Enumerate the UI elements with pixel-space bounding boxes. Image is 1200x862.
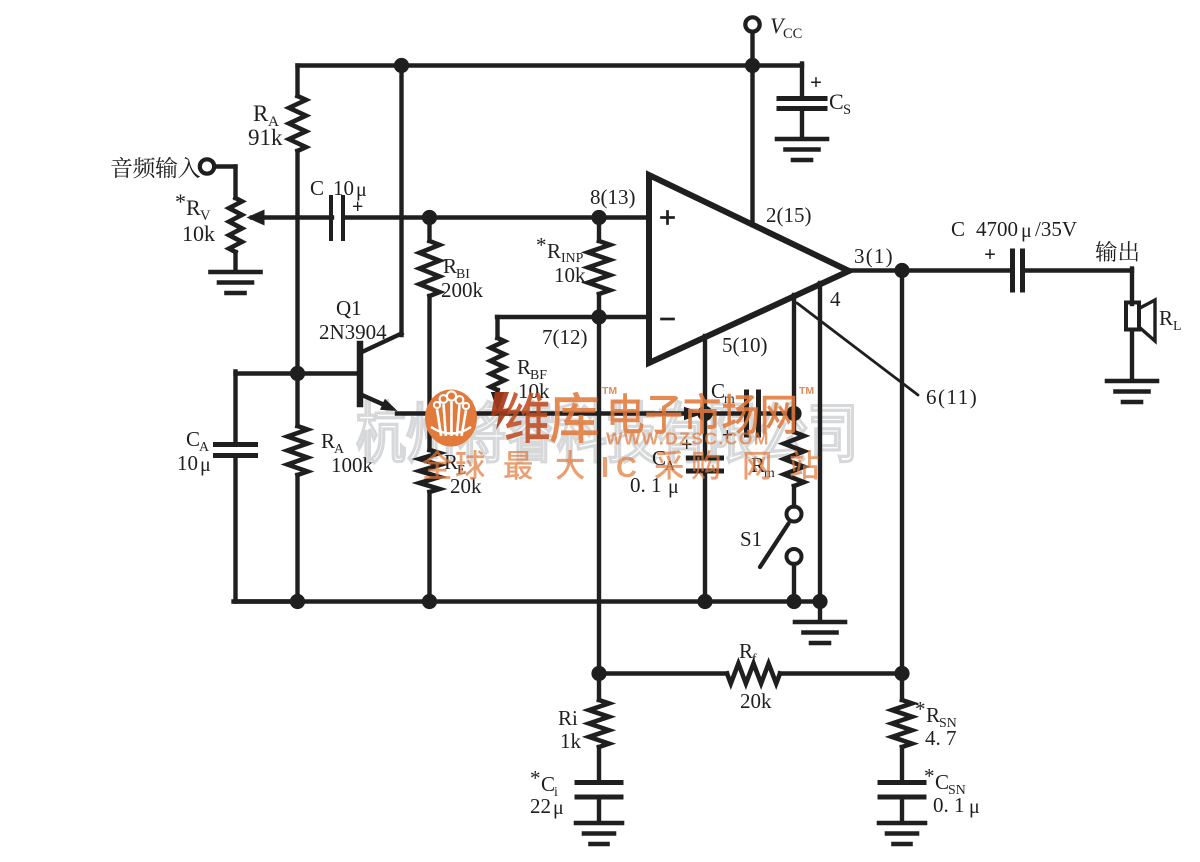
watermark dzsc logo circle and bolt — [425, 390, 510, 447]
svg-text:10k: 10k — [554, 263, 586, 287]
svg-text:L: L — [1173, 318, 1181, 333]
label 200k — [441, 278, 484, 302]
svg-text:μ: μ — [200, 454, 211, 476]
svg-text:S1: S1 — [740, 527, 762, 551]
svg-text:R: R — [253, 101, 269, 126]
label 7(12) — [542, 325, 588, 349]
svg-text:TM: TM — [602, 385, 617, 397]
input terminal circle — [200, 159, 214, 173]
capacitor CA 0.1u — [689, 458, 722, 471]
resistor Ri 1k body — [589, 700, 609, 747]
label + of output cap — [984, 242, 996, 266]
ground below CS — [777, 139, 827, 160]
label 100k — [331, 453, 374, 477]
wire C to opamp plus input — [344, 215, 650, 219]
svg-text:22: 22 — [530, 794, 551, 818]
node bus RA100k — [290, 594, 305, 609]
svg-text:R: R — [926, 703, 940, 727]
capacitor CS — [779, 99, 825, 109]
leader line 6(11) — [797, 303, 918, 395]
label 20k RE — [450, 474, 482, 498]
potentiometer RV body — [229, 198, 242, 252]
ground below CSN — [879, 823, 925, 844]
svg-text:Q1: Q1 — [336, 296, 362, 320]
svg-text:f: f — [752, 651, 757, 666]
capacitor C 4700u — [1013, 251, 1023, 290]
label S1 — [740, 527, 762, 551]
wire opamp output — [849, 268, 1011, 272]
resistor RINP 10k body — [588, 241, 610, 294]
svg-text:C: C — [310, 176, 324, 200]
transistor Q1 emitter lead with arrow — [362, 395, 398, 411]
switch S1 lever — [760, 524, 789, 568]
transistor Q1 collector lead — [362, 334, 402, 353]
resistor RA 100k body — [288, 374, 308, 602]
label CS — [829, 89, 851, 118]
label Cm — [711, 379, 735, 406]
svg-text:A: A — [199, 439, 209, 454]
op-amp plus input sign — [662, 212, 674, 224]
wire pin 6(11) branch — [792, 295, 796, 432]
switch S1 top contact — [787, 507, 802, 522]
label RA — [253, 101, 279, 130]
svg-text:μ: μ — [553, 797, 564, 819]
node junction of Q1 collector and supply bus — [394, 58, 409, 73]
pot wiper arrow — [247, 210, 333, 226]
svg-text:C: C — [541, 772, 555, 796]
svg-text:WWW.DZSC.COM: WWW.DZSC.COM — [606, 429, 770, 449]
node bus RE20k — [422, 594, 437, 609]
resistor RSN body — [892, 674, 912, 782]
wire RINP top stub — [597, 218, 601, 318]
label RBF — [517, 355, 547, 382]
wire Ci to ground — [597, 799, 601, 822]
svg-text:R: R — [443, 254, 457, 278]
svg-text:R: R — [547, 239, 561, 263]
svg-text:+: + — [984, 242, 996, 266]
svg-text:20k: 20k — [740, 689, 772, 713]
capacitor CA 10u — [216, 445, 256, 456]
op-amp minus input sign — [662, 318, 674, 321]
label 8(13) — [590, 185, 636, 209]
svg-text:8(13): 8(13) — [590, 185, 636, 209]
label *Ci — [530, 766, 558, 799]
node Rf left — [591, 666, 606, 681]
node junction of Vcc and supply bus — [745, 58, 760, 73]
wire output cap to load — [1023, 269, 1133, 305]
node base node RA junction — [290, 366, 305, 381]
node S1 at bottom bus — [786, 594, 801, 609]
label CA 0.1u — [652, 446, 675, 473]
svg-text:+: + — [810, 70, 822, 94]
svg-text:μ: μ — [1021, 220, 1032, 242]
resistor RBI 200k body — [420, 218, 440, 451]
switch S1 bottom contact — [787, 549, 802, 564]
label 6(11) — [926, 385, 978, 409]
watermark orange dzsc text — [423, 385, 819, 484]
capacitor CSN — [880, 783, 924, 798]
svg-text:CC: CC — [783, 26, 802, 42]
label CA left — [186, 427, 209, 454]
label *RV — [175, 189, 211, 224]
label Q1 — [336, 296, 362, 320]
wire base of Q1 — [236, 371, 358, 375]
label 4 — [830, 287, 841, 311]
svg-text:C: C — [951, 217, 965, 241]
label *CSN — [924, 764, 966, 797]
RBF bottom arrow onto emitter bus — [491, 392, 504, 412]
ground below Ci — [576, 823, 622, 844]
label + of CA 0.1u — [681, 434, 692, 456]
capacitor Ci 22u — [577, 783, 621, 798]
svg-text:6(11): 6(11) — [926, 385, 978, 409]
label RE — [444, 450, 465, 477]
svg-text:S: S — [843, 102, 851, 118]
wire CS branch from bus — [800, 64, 804, 98]
svg-text:1k: 1k — [560, 729, 582, 753]
svg-text:R: R — [517, 355, 531, 379]
label 22u — [530, 794, 564, 819]
capacitor C 10u — [331, 197, 343, 239]
wire Q1 emitter bus — [397, 407, 704, 420]
label 10k RINP — [554, 263, 586, 287]
op-amp U1 triangle — [649, 175, 849, 363]
label 2N3904 — [319, 320, 387, 344]
Vcc terminal — [745, 17, 759, 65]
watermark grey company name — [358, 401, 853, 463]
svg-text:0. 1: 0. 1 — [933, 793, 965, 817]
wire Cm to pin 6(11) branch — [759, 411, 795, 415]
label *RSN — [915, 697, 957, 730]
wire emitter bus to Cm — [705, 411, 744, 415]
wire CSN to ground — [900, 799, 904, 822]
node bus CA 0.1u — [697, 594, 712, 609]
node emitter wire at pin 5(10) branch — [697, 406, 712, 421]
svg-text:10: 10 — [177, 451, 198, 475]
label 20k Rf — [740, 689, 772, 713]
svg-text:R: R — [1159, 306, 1173, 330]
svg-text:100k: 100k — [331, 453, 374, 477]
svg-text:R: R — [186, 195, 201, 220]
node output 3(1) — [894, 263, 909, 278]
node pin 6(11) branch at Cm — [786, 406, 801, 421]
label RA 100k — [321, 429, 344, 456]
label 2(15) — [766, 203, 812, 227]
svg-text:C: C — [935, 770, 949, 794]
resistor RE 20k body — [420, 450, 440, 602]
wire bottom bus — [236, 599, 821, 603]
label 3(1) — [854, 244, 894, 268]
svg-text:2N3904: 2N3904 — [319, 320, 387, 344]
label RBI — [443, 254, 470, 281]
svg-text:3(1): 3(1) — [854, 244, 894, 268]
svg-text:C: C — [186, 427, 200, 451]
label + of CS — [810, 70, 822, 94]
capacitor Cm — [747, 392, 759, 435]
label *RINP — [536, 233, 584, 265]
wire S1 to bottom bus — [792, 564, 796, 602]
wire Q1 collector to supply bus — [399, 66, 403, 336]
label 0.1u — [630, 473, 679, 498]
svg-text:*: * — [175, 189, 186, 214]
ground below RL — [1107, 381, 1157, 402]
resistor RBF 10k body — [491, 317, 505, 403]
svg-text:*: * — [530, 766, 541, 790]
svg-text:R: R — [739, 639, 753, 663]
svg-text:10k: 10k — [518, 379, 550, 403]
resistor Rm body — [784, 432, 804, 507]
wire pin 2(15) from supply bus — [750, 66, 754, 226]
wire CA to bottom bus — [234, 457, 300, 602]
svg-text:200k: 200k — [441, 278, 484, 302]
svg-text:4. 7: 4. 7 — [925, 726, 957, 750]
label 1k — [560, 729, 582, 753]
resistor RA 91k body — [289, 66, 306, 376]
label 10u left — [177, 451, 211, 476]
wire CS to ground — [800, 110, 804, 137]
wire output node down to Rf — [900, 271, 904, 674]
label Rf — [739, 639, 757, 666]
label 91k — [248, 125, 283, 150]
label 0.1u CSN — [933, 793, 980, 818]
svg-text:4700: 4700 — [976, 217, 1018, 241]
wire pin 4 to ground — [818, 283, 822, 620]
label + of C — [352, 196, 363, 218]
wire minus node down to Rf — [597, 317, 601, 674]
node input wire at RBI — [422, 210, 437, 225]
svg-text:91k: 91k — [248, 125, 283, 150]
wire input terminal to pot — [215, 167, 236, 199]
node pin4 at bottom bus — [812, 594, 827, 609]
label C 10u — [310, 176, 367, 201]
svg-text:μ: μ — [969, 796, 980, 818]
label output — [1096, 241, 1139, 262]
svg-text:R: R — [321, 429, 335, 453]
svg-text:5(10): 5(10) — [722, 333, 768, 357]
svg-text:TM: TM — [799, 385, 814, 397]
svg-text:10k: 10k — [182, 221, 215, 246]
svg-text:/35V: /35V — [1035, 217, 1077, 241]
wire Ri stubs — [597, 674, 601, 782]
label Vcc — [770, 13, 802, 42]
label 10k RV — [182, 221, 215, 246]
wire top supply bus — [298, 63, 803, 67]
wire pin 5(10) branch — [703, 336, 707, 456]
wire speaker to ground — [1130, 330, 1134, 379]
wire CA 0.1u to bottom bus — [703, 473, 707, 602]
label + of Cm — [722, 425, 733, 446]
svg-text:C: C — [829, 89, 844, 114]
label Rm — [751, 453, 775, 480]
svg-text:C: C — [711, 379, 725, 403]
svg-text:20k: 20k — [450, 474, 482, 498]
node Rf right — [894, 666, 909, 681]
svg-text:*: * — [915, 697, 926, 721]
wire base node to CA — [233, 372, 237, 444]
wire pot to ground — [233, 252, 237, 271]
label C 4700u/35V — [951, 217, 1077, 242]
node minus input node 7(12) — [591, 309, 606, 324]
label Ri — [558, 706, 578, 730]
resistor Rf 20k body — [599, 664, 902, 684]
label audio input — [111, 157, 200, 179]
svg-text:4: 4 — [830, 287, 841, 311]
ground below RV — [211, 272, 261, 293]
svg-text:2(15): 2(15) — [766, 203, 812, 227]
svg-text:*: * — [536, 233, 547, 257]
label RL — [1159, 306, 1181, 333]
transistor Q1 base bar — [357, 344, 364, 404]
node input wire at RINP pin 8(13) — [591, 210, 606, 225]
label 5(10) — [722, 333, 768, 357]
svg-text:+: + — [352, 196, 363, 218]
wire minus input — [497, 315, 649, 319]
svg-text:I: I — [601, 452, 609, 484]
speaker RL — [1126, 300, 1155, 341]
ground main below bus — [795, 622, 845, 643]
svg-text:*: * — [924, 764, 935, 788]
label 10k RBF — [518, 379, 550, 403]
svg-text:Ri: Ri — [558, 706, 578, 730]
label 4.7 — [925, 726, 957, 750]
svg-text:7(12): 7(12) — [542, 325, 588, 349]
svg-text:C: C — [616, 452, 637, 484]
